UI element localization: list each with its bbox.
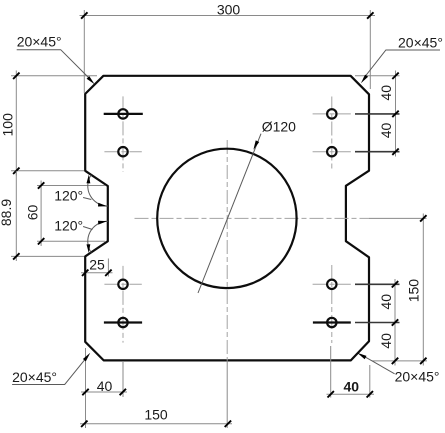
svg-text:300: 300 — [217, 2, 241, 18]
hole H7 centerline — [313, 283, 351, 285]
hole H4 — [118, 318, 127, 327]
svg-text:40: 40 — [378, 85, 394, 101]
hole H2 centerline — [104, 151, 141, 153]
label O120 with leader — [198, 119, 296, 293]
hole H5 — [327, 109, 336, 118]
hole H5 centerline — [313, 113, 351, 115]
center circle O120 — [157, 149, 296, 288]
hole H4 thick line — [104, 321, 142, 323]
dimension 100 left — [0, 71, 97, 176]
svg-text:20×45°: 20×45° — [398, 34, 443, 50]
dimension 40 bottom-right — [327, 346, 375, 398]
svg-text:40: 40 — [344, 379, 360, 395]
dimension 300 top — [80, 2, 376, 93]
svg-text:20×45°: 20×45° — [12, 369, 57, 385]
circle centerline horizontal — [135, 217, 370, 219]
svg-text:Ø120: Ø120 — [262, 119, 296, 135]
dimension 40 right-bottom pair — [355, 279, 427, 366]
hole H8 thick line — [313, 321, 351, 323]
svg-text:40: 40 — [378, 333, 394, 349]
hole group top-left centerline — [122, 96, 124, 171]
svg-text:60: 60 — [24, 205, 40, 221]
hole H6 — [327, 147, 336, 156]
svg-text:120°: 120° — [54, 188, 83, 204]
circle centerline vertical — [226, 140, 228, 360]
dimension 150 bottom — [80, 406, 232, 427]
svg-text:40: 40 — [378, 294, 394, 310]
angle 120 top — [54, 175, 108, 207]
hole H1 — [118, 109, 127, 118]
dimension 40 right-top pair — [355, 71, 400, 157]
dimension 88.9 left — [0, 171, 84, 261]
svg-text:25: 25 — [89, 257, 105, 273]
dimension 150 right — [406, 214, 427, 366]
hole H8 — [327, 318, 336, 327]
plate outline — [85, 76, 369, 361]
hole H3 — [118, 280, 127, 289]
hole group bottom-left centerline — [122, 266, 124, 343]
dimension 40 bottom-left — [81, 348, 127, 428]
svg-text:100: 100 — [0, 113, 16, 137]
svg-text:20×45°: 20×45° — [395, 368, 440, 384]
svg-text:40: 40 — [378, 123, 394, 139]
label 20x45 top-left — [17, 34, 95, 84]
hole H2 — [118, 147, 127, 156]
dimension 25 — [81, 257, 113, 277]
hole H1 thick line — [104, 113, 143, 115]
svg-text:150: 150 — [406, 279, 422, 303]
svg-text:150: 150 — [144, 406, 168, 422]
hole H7 — [327, 280, 336, 289]
hole group top-right centerline — [331, 97, 333, 171]
label 20x45 bottom-left — [12, 353, 90, 385]
hole H6 centerline — [313, 151, 351, 153]
hole H3 centerline — [104, 283, 141, 285]
svg-text:20×45°: 20×45° — [17, 34, 62, 50]
label 20x45 top-right — [361, 34, 443, 83]
label 20x45 bottom-right — [357, 353, 439, 384]
dimension 60 left — [24, 181, 105, 247]
hole group bottom-right centerline — [331, 265, 333, 343]
svg-text:120°: 120° — [54, 218, 83, 234]
angle 120 bottom — [54, 218, 108, 254]
svg-text:88.9: 88.9 — [0, 199, 14, 226]
svg-text:40: 40 — [97, 378, 113, 394]
